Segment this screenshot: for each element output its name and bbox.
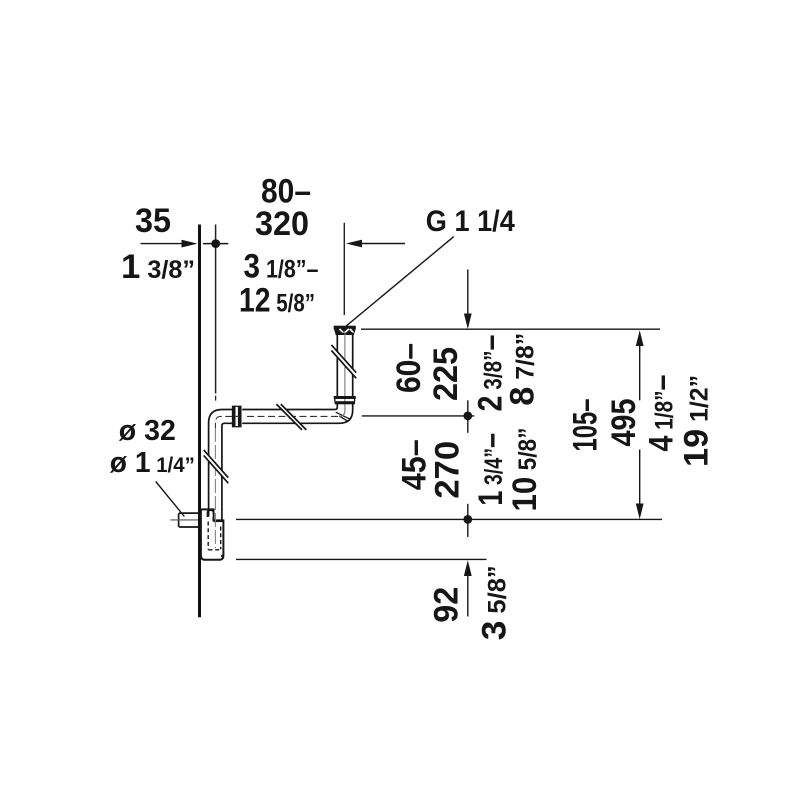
centerline bend at left elbow (dashed)	[215, 416, 232, 428]
centerline of vertical tailpiece	[340, 333, 345, 417]
wall outlet stub pipe	[179, 513, 200, 527]
wall fitting socket	[201, 509, 224, 559]
centerline of horizontal pipe (dashed)	[247, 415, 339, 417]
dimension 80-320 arrow pointing left	[346, 240, 405, 248]
svg-text:320: 320	[255, 205, 309, 243]
break mark on lower vertical pipe	[204, 450, 229, 483]
right elbow and horizontal pipe	[242, 404, 353, 423]
leader line G 1 1/4	[346, 237, 454, 327]
pipe flange at top (G 1 1/4 connection)	[334, 326, 356, 335]
down arrow to top line (60-225 upper end)	[464, 270, 472, 330]
node dot at wall/axis	[211, 239, 220, 248]
fitting hidden bore dashed lines	[208, 522, 221, 550]
right dimension 105-495 double arrow	[636, 330, 644, 519]
svg-text:G 1 1/4: G 1 1/4	[426, 205, 515, 238]
node dot middle	[463, 412, 472, 421]
stub centerline	[170, 519, 199, 521]
vertical tailpiece pipe	[337, 335, 352, 396]
svg-text:ø 32: ø 32	[119, 415, 176, 447]
svg-text:92: 92	[428, 587, 466, 623]
svg-text:35: 35	[135, 202, 171, 240]
svg-text:105–: 105–	[566, 399, 604, 452]
left elbow and lower vertical pipe	[209, 410, 233, 510]
fitting bottom horizontal dimension line	[236, 558, 487, 560]
break mark on vertical tailpiece	[331, 345, 356, 378]
middle horizontal dimension line	[362, 415, 475, 417]
break mark on horizontal pipe	[276, 404, 306, 430]
middle tick vertical	[467, 400, 469, 433]
leader line for diameter labels	[156, 482, 185, 517]
pipe edges entering fitting	[209, 509, 222, 520]
coupling nut on vertical pipe	[334, 396, 356, 404]
lower tick vertical	[467, 504, 469, 537]
fitting seal bump	[208, 510, 214, 517]
top horizontal dimension line	[361, 328, 660, 330]
svg-text:495: 495	[605, 399, 643, 447]
dimension 35 line with arrow	[141, 240, 198, 248]
lower horizontal dimension line	[236, 518, 662, 520]
dimension 92 up arrow	[464, 560, 472, 616]
coupling nut on horizontal pipe	[233, 406, 241, 426]
svg-text:225: 225	[427, 347, 465, 401]
node dot lower	[463, 515, 472, 524]
wall line	[198, 225, 201, 618]
extension line for 80-320	[343, 223, 345, 315]
svg-text:270: 270	[429, 441, 467, 499]
pipe axis extension line at wall	[215, 225, 217, 394]
svg-text:60–: 60–	[390, 343, 428, 393]
tick through dot at pipe axis	[203, 243, 228, 245]
